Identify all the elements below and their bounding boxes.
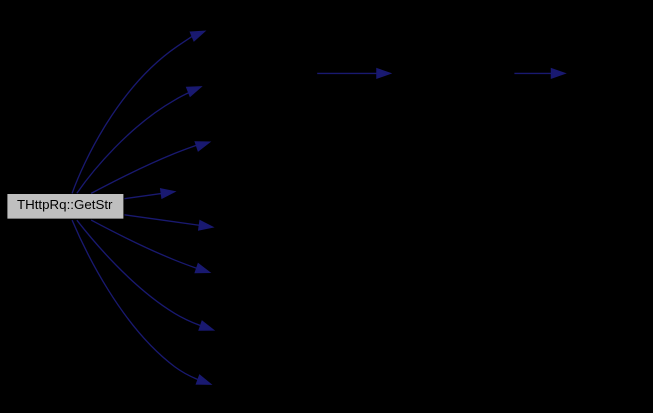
node N7 (hidden callee, row 6) xyxy=(209,273,308,300)
edge N1->N4 (third fan arrow) xyxy=(91,142,209,194)
edge N10->N11 (horizontal arrow, right) xyxy=(514,69,564,78)
edge N1->N2 (top fan arrow) xyxy=(72,31,204,193)
node N6 (hidden callee, row 5) xyxy=(213,220,305,247)
node N1: THttpRq::GetStr (current, grey) xyxy=(7,193,124,219)
node N4 (hidden callee, row 3) xyxy=(209,113,308,140)
edge N1->N3 (second fan arrow) xyxy=(77,87,201,193)
edge N1->N9 (bottom fan arrow) xyxy=(72,220,211,384)
node N9 (hidden callee, row 8) xyxy=(211,380,307,407)
edge N1->N7 (sixth fan arrow) xyxy=(91,220,209,273)
node N5 (hidden callee, row 4) xyxy=(175,167,343,194)
node N8 (hidden callee, row 7) xyxy=(213,327,304,354)
edge N1->N8 (seventh fan arrow) xyxy=(77,220,213,330)
node N11 (hidden third-level callee) xyxy=(568,60,651,87)
edge N1->N5 (fourth fan arrow, short) xyxy=(124,189,174,199)
edge N3->N10 (horizontal arrow, middle) xyxy=(317,69,390,78)
node N2 (hidden callee, row 1) xyxy=(205,7,313,34)
node N3 (hidden callee, row 2) xyxy=(201,60,317,87)
node N10 (hidden second-level callee) xyxy=(393,60,517,87)
edge N1->N6 (fifth fan arrow) xyxy=(124,215,212,230)
svg-text:THttpRq::GetStr: THttpRq::GetStr xyxy=(17,197,113,212)
